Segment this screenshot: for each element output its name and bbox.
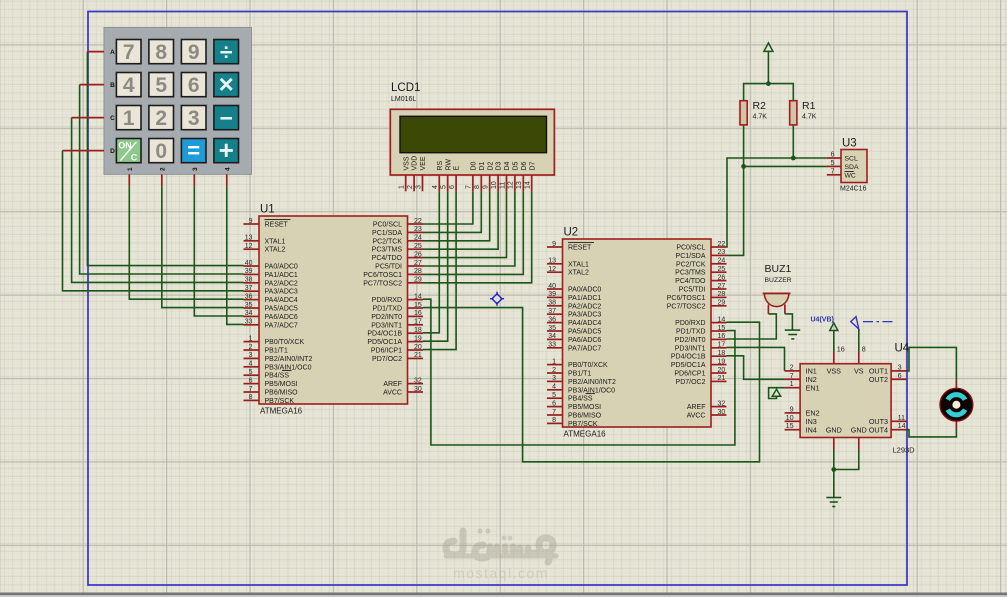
svg-text:OUT2: OUT2 — [869, 375, 888, 384]
svg-text:21: 21 — [414, 352, 422, 359]
svg-text:PD0/RXD: PD0/RXD — [372, 297, 402, 304]
svg-text:VS: VS — [854, 367, 864, 376]
svg-text:7: 7 — [466, 185, 473, 189]
svg-text:BUZ1: BUZ1 — [765, 263, 792, 275]
svg-text:PC3/TMS: PC3/TMS — [675, 270, 706, 277]
svg-text:9: 9 — [483, 185, 490, 189]
svg-text:9: 9 — [552, 241, 556, 248]
U4 pin 7 IN2 — [785, 378, 801, 380]
resistor R2 4.7K — [740, 100, 767, 125]
wire U4 VSS to power arrow — [833, 331, 835, 352]
svg-text:4: 4 — [249, 361, 253, 368]
svg-text:PA2/ADC2: PA2/ADC2 — [265, 280, 298, 287]
svg-text:PB1/T1: PB1/T1 — [265, 348, 288, 355]
svg-text:34: 34 — [245, 310, 253, 317]
svg-text:B: B — [110, 82, 115, 89]
ground symbol (U4) — [826, 498, 841, 507]
svg-text:33: 33 — [548, 342, 556, 349]
svg-text:PD6/ICP1: PD6/ICP1 — [674, 371, 705, 378]
origin marker (blue diamond) — [490, 292, 504, 306]
keypad button 4 — [116, 73, 141, 97]
wire LCD D6 to U1 PC6 — [423, 191, 523, 274]
svg-text:+: + — [219, 135, 234, 165]
svg-text:PA4/ADC4: PA4/ADC4 — [568, 320, 601, 327]
wire net SCL: R1 to U3 and U2 PC0 — [727, 158, 827, 247]
keypad row pin B — [80, 84, 104, 86]
wire keypad col 4 to U1 PA7 — [227, 186, 244, 324]
svg-text:3: 3 — [552, 375, 556, 382]
svg-text:29: 29 — [718, 300, 726, 307]
svg-text:14: 14 — [525, 181, 532, 189]
svg-text:15: 15 — [786, 421, 794, 430]
svg-text:PD6/ICP1: PD6/ICP1 — [371, 348, 402, 355]
LCD pin 14 D7 — [531, 175, 533, 191]
svg-text:RESET: RESET — [265, 222, 289, 229]
svg-text:16: 16 — [837, 345, 845, 354]
svg-text:6: 6 — [898, 371, 902, 380]
svg-text:WC: WC — [845, 172, 856, 179]
svg-text:25: 25 — [414, 243, 422, 250]
svg-text:PB7/SCK: PB7/SCK — [568, 421, 598, 428]
svg-text:6: 6 — [249, 377, 253, 384]
svg-text:U4(VB): U4(VB) — [811, 317, 834, 324]
svg-text:2: 2 — [155, 107, 167, 130]
svg-text:2: 2 — [552, 367, 556, 374]
svg-text:34: 34 — [548, 333, 556, 340]
svg-text:28: 28 — [414, 268, 422, 275]
LCD pin 11 D4 — [506, 175, 508, 191]
wire LCD RS to U1 PD4 — [423, 191, 439, 332]
svg-text:PA2/ADC2: PA2/ADC2 — [568, 303, 601, 310]
svg-text:PA6/ADC6: PA6/ADC6 — [265, 314, 298, 321]
svg-text:9: 9 — [249, 218, 253, 225]
keypad button &#215; — [214, 73, 239, 97]
svg-text:M24C16: M24C16 — [840, 186, 867, 193]
wire LCD E to U1 PD6 — [423, 191, 456, 349]
svg-text:PD4/OC1B: PD4/OC1B — [367, 331, 402, 338]
svg-text:PB6/MISO: PB6/MISO — [568, 413, 602, 420]
svg-text:D2: D2 — [487, 161, 494, 170]
U3 pin 7 WC — [827, 174, 841, 176]
terminal flag on VS — [851, 317, 859, 329]
svg-text:GND: GND — [826, 425, 842, 434]
svg-text:A: A — [110, 49, 115, 56]
svg-text:4: 4 — [224, 167, 231, 171]
power symbol at EN1 — [772, 389, 780, 396]
svg-text:17: 17 — [414, 319, 422, 326]
svg-text:÷: ÷ — [220, 39, 233, 65]
LCD pin 5 RW — [447, 175, 449, 191]
keypad calculator — [63, 28, 252, 187]
svg-text:PC7/TOSC2: PC7/TOSC2 — [667, 303, 706, 310]
keypad column pin 2 — [161, 174, 163, 186]
svg-text:39: 39 — [245, 268, 253, 275]
svg-text:PA4/ADC4: PA4/ADC4 — [265, 297, 298, 304]
svg-text:PC5/TDI: PC5/TDI — [375, 264, 402, 271]
svg-text:PD3/INT1: PD3/INT1 — [371, 322, 402, 329]
svg-text:LM016L: LM016L — [391, 96, 416, 103]
svg-text:PC2/TCK: PC2/TCK — [676, 261, 706, 268]
svg-text:14: 14 — [414, 293, 422, 300]
svg-text:4: 4 — [552, 384, 556, 391]
svg-text:R2: R2 — [753, 100, 767, 112]
svg-text:3: 3 — [415, 185, 422, 189]
svg-text:PD2/INT0: PD2/INT0 — [371, 314, 402, 321]
svg-text:25: 25 — [718, 266, 726, 273]
svg-text:PA7/ADC7: PA7/ADC7 — [568, 345, 601, 352]
svg-text:2: 2 — [249, 344, 253, 351]
buzzer BUZ1 — [763, 263, 792, 314]
wire U4 VS to terminal — [858, 329, 860, 352]
wire U4 EN1 to power flag — [769, 388, 785, 399]
svg-text:PB5/MOSI: PB5/MOSI — [265, 381, 298, 388]
svg-text:36: 36 — [548, 316, 556, 323]
motor (DC motor on U4 outputs) — [940, 381, 973, 429]
svg-text:PA6/ADC6: PA6/ADC6 — [568, 337, 601, 344]
svg-text:2: 2 — [159, 167, 166, 171]
svg-text:R1: R1 — [802, 100, 816, 112]
wire U2 PD4 to U4 IN2 — [727, 356, 785, 380]
svg-text:D4: D4 — [504, 161, 511, 170]
keypad button 2 — [149, 106, 174, 130]
keypad button 0 — [149, 139, 174, 163]
resistor R1 4.7K — [790, 100, 817, 125]
U4 pin 9 EN2 — [785, 412, 801, 414]
svg-text:7: 7 — [123, 41, 135, 64]
svg-text:PB1/T1: PB1/T1 — [568, 371, 591, 378]
wire LCD D4 to U1 PC4 — [423, 191, 507, 257]
svg-text:19: 19 — [718, 358, 726, 365]
svg-text:U2: U2 — [564, 227, 579, 239]
wire U2 PD3 to U4 IN1 — [727, 347, 785, 371]
svg-text:12: 12 — [548, 266, 556, 273]
microcontroller U1 ATMEGA16 — [244, 204, 424, 416]
svg-text:19: 19 — [414, 335, 422, 342]
LCD display LCD1 LM016L — [390, 82, 554, 191]
svg-text:AVCC: AVCC — [383, 390, 402, 397]
wire R1 bottom to SCL node — [792, 125, 794, 158]
LCD pin 8 D1 — [480, 175, 482, 191]
wire net SDA: R2 to U3 and U2 PC1 — [727, 166, 827, 255]
svg-text:U4: U4 — [895, 343, 910, 355]
microcontroller U2 ATMEGA16 — [547, 227, 727, 439]
svg-text:24: 24 — [414, 235, 422, 242]
svg-text:PA5/ADC5: PA5/ADC5 — [568, 329, 601, 336]
wire U1 TXD to U2 RXD — [423, 308, 760, 462]
svg-text:6: 6 — [831, 152, 835, 159]
schematic sheet border — [88, 12, 907, 586]
wire LCD D1 to U1 PC1 — [423, 191, 481, 232]
U4 pin 15 IN4 — [785, 429, 801, 431]
svg-text:PD7/OC2: PD7/OC2 — [676, 379, 706, 386]
svg-text:38: 38 — [548, 300, 556, 307]
U4 pin 2 IN1 — [785, 370, 801, 372]
svg-text:PB6/MISO: PB6/MISO — [265, 390, 299, 397]
svg-text:5: 5 — [249, 369, 253, 376]
svg-text:PA3/ADC3: PA3/ADC3 — [568, 312, 601, 319]
U4 pin 11 OUT3 — [891, 420, 906, 422]
wire U4 OUT4 to motor bottom — [907, 429, 957, 437]
svg-text:27: 27 — [718, 283, 726, 290]
svg-text:15: 15 — [718, 325, 726, 332]
svg-text:1: 1 — [127, 167, 134, 171]
keypad button 7 — [116, 40, 141, 64]
svg-text:BUZZER: BUZZER — [765, 277, 792, 284]
U4 pin 14 OUT4 — [891, 429, 906, 431]
svg-text:11: 11 — [499, 182, 506, 189]
svg-text:GND: GND — [851, 425, 867, 434]
svg-text:PD1/TXD: PD1/TXD — [676, 329, 706, 336]
svg-text:PB4/SS: PB4/SS — [265, 373, 290, 380]
svg-text:AREF: AREF — [383, 381, 402, 388]
svg-text:26: 26 — [718, 274, 726, 281]
svg-text:PA1/ADC1: PA1/ADC1 — [568, 295, 601, 302]
svg-text:13: 13 — [516, 181, 523, 189]
svg-text:6: 6 — [188, 74, 200, 97]
svg-text:D0: D0 — [471, 161, 478, 170]
svg-text:16: 16 — [718, 333, 726, 340]
keypad button 6 — [181, 73, 206, 97]
svg-text:PC1/SDA: PC1/SDA — [372, 230, 402, 237]
svg-text:12: 12 — [245, 243, 253, 250]
svg-text:14: 14 — [718, 316, 726, 323]
wire U4 GND right to junction — [834, 450, 859, 470]
svg-text:PB7/SCK: PB7/SCK — [265, 398, 295, 405]
wire U1 RXD to U2 TXD — [423, 299, 735, 445]
svg-text:8: 8 — [155, 41, 167, 64]
svg-text:2: 2 — [407, 185, 414, 189]
svg-text:PC7/TOSC2: PC7/TOSC2 — [363, 280, 402, 287]
LCD pin 10 D3 — [497, 175, 499, 191]
LCD pin 6 E — [455, 175, 457, 191]
svg-text:PC1/SDA: PC1/SDA — [676, 253, 706, 260]
svg-text:28: 28 — [718, 291, 726, 298]
svg-text:SCL: SCL — [845, 156, 858, 163]
wire U2 INT0 to buzzer — [727, 314, 777, 339]
svg-text:PC3/TMS: PC3/TMS — [372, 247, 403, 254]
svg-text:PD4/OC1B: PD4/OC1B — [671, 354, 706, 361]
svg-text:3: 3 — [192, 167, 199, 171]
svg-text:1: 1 — [552, 358, 556, 365]
svg-text:U3: U3 — [842, 138, 857, 150]
EEPROM U3 M24C16 — [827, 138, 867, 193]
LCD pin 2 VDD — [413, 175, 415, 191]
U4 GND pins — [833, 438, 835, 450]
svg-text:LCD1: LCD1 — [391, 82, 420, 94]
keypad row pin A — [87, 51, 104, 53]
svg-text:5: 5 — [441, 185, 448, 189]
svg-text:XTAL1: XTAL1 — [265, 238, 286, 245]
svg-text:RW: RW — [445, 159, 452, 171]
LCD pin 9 D2 — [489, 175, 491, 191]
svg-text:24: 24 — [718, 258, 726, 265]
svg-text:39: 39 — [548, 291, 556, 298]
svg-text:29: 29 — [414, 277, 422, 284]
svg-text:PD5/OC1A: PD5/OC1A — [671, 362, 706, 369]
svg-text:EN1: EN1 — [806, 383, 820, 392]
svg-text:ATMEGA16: ATMEGA16 — [260, 407, 303, 416]
svg-text:3: 3 — [249, 352, 253, 359]
motor driver U4 L293D — [785, 343, 916, 455]
keypad column pin 1 — [128, 174, 130, 186]
wire LCD D7 to U1 PC7 — [423, 191, 532, 282]
svg-text:PA0/ADC0: PA0/ADC0 — [265, 264, 298, 271]
svg-text:4.7K: 4.7K — [802, 114, 817, 121]
svg-text:8: 8 — [474, 185, 481, 189]
watermark — [446, 528, 556, 581]
keypad button &#247; — [214, 40, 239, 64]
svg-text:35: 35 — [548, 325, 556, 332]
svg-text:5: 5 — [155, 74, 167, 97]
wire keypad col 1 to U1 PA4 — [129, 186, 243, 299]
svg-text:IN4: IN4 — [806, 425, 817, 434]
svg-text:23: 23 — [414, 226, 422, 233]
svg-text:13: 13 — [245, 235, 253, 242]
svg-text:PA5/ADC5: PA5/ADC5 — [265, 306, 298, 313]
keypad button = — [181, 139, 206, 163]
svg-text:1: 1 — [399, 185, 406, 189]
wire keypad row B to U1 PA1 — [80, 85, 244, 274]
svg-text:U1: U1 — [260, 204, 275, 216]
wire keypad col 2 to U1 PA5 — [162, 186, 244, 307]
svg-text:27: 27 — [414, 260, 422, 267]
LCD pin 1 VSS — [405, 175, 407, 191]
svg-text:7: 7 — [249, 386, 253, 393]
svg-text:10: 10 — [491, 181, 498, 189]
svg-text:PD7/OC2: PD7/OC2 — [372, 356, 402, 363]
svg-text:D5: D5 — [513, 161, 520, 170]
svg-text:L293D: L293D — [893, 446, 916, 455]
svg-text:D: D — [110, 148, 115, 155]
svg-text:26: 26 — [414, 251, 422, 258]
svg-text:D1: D1 — [479, 161, 486, 170]
svg-text:PC5/TDI: PC5/TDI — [679, 287, 706, 294]
LCD pin 12 D5 — [514, 175, 516, 191]
svg-text:PA3/ADC3: PA3/ADC3 — [265, 289, 298, 296]
junction dot SCL node — [791, 156, 796, 161]
keypad row pin D — [63, 150, 105, 152]
svg-text:1: 1 — [790, 379, 794, 388]
svg-text:17: 17 — [718, 342, 726, 349]
svg-text:20: 20 — [414, 344, 422, 351]
svg-text:7: 7 — [552, 409, 556, 416]
svg-text:23: 23 — [718, 249, 726, 256]
wire LCD D0 to U1 PC0 — [423, 191, 473, 224]
svg-text:VEE: VEE — [420, 156, 427, 170]
svg-text:12: 12 — [508, 181, 515, 189]
svg-text:PB5/MOSI: PB5/MOSI — [568, 404, 601, 411]
svg-text:E: E — [454, 166, 461, 171]
svg-text:XTAL1: XTAL1 — [568, 261, 589, 268]
svg-text:6: 6 — [552, 400, 556, 407]
svg-text:RS: RS — [437, 160, 444, 170]
svg-text:PC2/TCK: PC2/TCK — [372, 238, 402, 245]
svg-text:21: 21 — [718, 375, 726, 382]
wire LCD RW to U1 PD5 — [423, 191, 448, 341]
wire keypad row A to U1 PA0 — [87, 52, 243, 266]
svg-text:16: 16 — [414, 310, 422, 317]
svg-text:PB0/T0/XCK: PB0/T0/XCK — [568, 362, 608, 369]
LCD pin 4 RS — [438, 175, 440, 191]
svg-text:OUT4: OUT4 — [869, 425, 888, 434]
svg-text:C: C — [110, 115, 115, 122]
wire keypad col 3 to U1 PA6 — [194, 186, 243, 316]
keypad row pin C — [72, 117, 104, 119]
svg-text:0: 0 — [155, 140, 167, 163]
svg-text:8: 8 — [862, 345, 866, 354]
svg-text:22: 22 — [718, 241, 726, 248]
svg-text:PC4/TDO: PC4/TDO — [675, 278, 706, 285]
svg-text:18: 18 — [414, 327, 422, 334]
svg-text:AVCC: AVCC — [687, 413, 706, 420]
wire U4 GND left to ground — [833, 450, 835, 498]
svg-text:PA7/ADC7: PA7/ADC7 — [265, 322, 298, 329]
svg-text:=: = — [187, 138, 200, 163]
keypad button ON/C — [116, 139, 141, 163]
wire LCD D3 to U1 PC3 — [423, 191, 498, 249]
junction dot power rail — [766, 81, 771, 86]
svg-text:37: 37 — [548, 308, 556, 315]
svg-text:PC6/TOSC1: PC6/TOSC1 — [363, 272, 402, 279]
wire power rail to R1 R2 tops — [744, 84, 794, 101]
svg-text:XTAL2: XTAL2 — [568, 270, 589, 277]
svg-text:9: 9 — [188, 41, 200, 64]
U4 pin 6 OUT2 — [891, 378, 906, 380]
wire power arrow stem — [767, 51, 769, 84]
wire keypad row D to U1 PA3 — [63, 151, 244, 291]
svg-text:PB2/AIN0/INT2: PB2/AIN0/INT2 — [568, 379, 616, 386]
svg-text:D3: D3 — [496, 161, 503, 170]
svg-text:mostaql.com: mostaql.com — [453, 565, 549, 581]
svg-text:PD2/INT0: PD2/INT0 — [675, 337, 706, 344]
wire U4 OUT1 to motor top — [907, 347, 957, 381]
svg-text:PB2/AIN0/INT2: PB2/AIN0/INT2 — [265, 356, 313, 363]
svg-text:PA0/ADC0: PA0/ADC0 — [568, 287, 601, 294]
wire keypad row C to U1 PA2 — [72, 118, 244, 283]
keypad button + — [214, 139, 239, 163]
svg-text:PC0/SCL: PC0/SCL — [373, 222, 402, 229]
keypad column pin 3 — [193, 174, 195, 186]
svg-text:22: 22 — [414, 218, 422, 225]
svg-text:ATMEGA16: ATMEGA16 — [564, 430, 607, 439]
svg-text:PC6/TOSC1: PC6/TOSC1 — [667, 295, 706, 302]
svg-text:4: 4 — [123, 74, 135, 97]
svg-text:AREF: AREF — [687, 404, 706, 411]
U4 pin 3 OUT1 — [891, 370, 906, 372]
svg-text:20: 20 — [718, 367, 726, 374]
svg-text:PD3/INT1: PD3/INT1 — [675, 345, 706, 352]
svg-text:C: C — [131, 153, 138, 163]
svg-text:36: 36 — [245, 293, 253, 300]
svg-text:33: 33 — [245, 319, 253, 326]
svg-text:38: 38 — [245, 277, 253, 284]
svg-text:35: 35 — [245, 302, 253, 309]
ground symbol (buzzer) — [785, 330, 800, 339]
svg-text:−: − — [219, 105, 232, 131]
keypad button 8 — [149, 40, 174, 64]
svg-text:8: 8 — [249, 394, 253, 401]
U4 pin 1 EN1 — [785, 387, 801, 389]
power symbol (VCC arrow) — [764, 43, 773, 52]
svg-text:5: 5 — [552, 392, 556, 399]
svg-text:PD5/OC1A: PD5/OC1A — [367, 339, 402, 346]
LCD pin 13 D6 — [522, 175, 524, 191]
svg-text:5: 5 — [831, 160, 835, 167]
svg-text:PB4/SS: PB4/SS — [568, 396, 593, 403]
svg-text:4: 4 — [432, 185, 439, 189]
wire buzzer to ground — [785, 314, 793, 330]
svg-text:D7: D7 — [529, 161, 536, 170]
